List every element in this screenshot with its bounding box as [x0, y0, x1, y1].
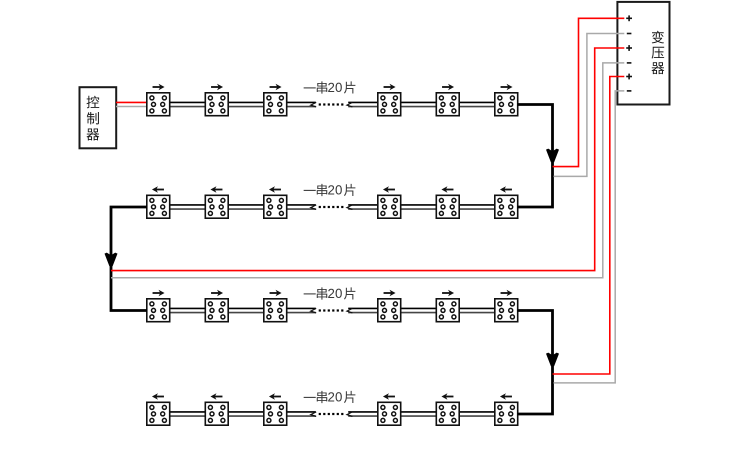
wire black row1 end to row2 end (right side bus) [518, 105, 553, 208]
transformer terminal - (output 2) [627, 62, 632, 64]
value label 一串20片 row4 [304, 391, 356, 403]
LED module row3 #6 [495, 299, 518, 322]
transformer terminal - (output 3) [627, 90, 632, 92]
wire break mark right row2 [347, 205, 352, 210]
wire break mark left row3 [311, 308, 316, 313]
wire pair row3 segment 5 [402, 308, 436, 312]
LED module row1 #6 [495, 93, 518, 116]
direction arrow above row2 module 6 [500, 186, 512, 192]
wire gray transformer output3 - to junction rows3-4 [554, 91, 625, 383]
LED module row2 #5 [436, 195, 459, 218]
wire pair row1 segment 5 [402, 102, 436, 106]
wire pair row2 segment 5 [402, 205, 436, 209]
wire red transformer output2 + to junction rows2-3 [111, 48, 624, 271]
wire break mark right row1 [347, 102, 352, 107]
LED module row4 #4 [378, 402, 401, 425]
direction arrow above row1 module 1 [153, 84, 165, 90]
value label 一串20片 row3 [304, 287, 356, 299]
wire break mark left row1 [311, 102, 316, 107]
wire pair row3 segment 2 [229, 308, 263, 312]
direction arrow above row3 module 3 [270, 290, 282, 296]
flow arrow on right bus rows1-2 [546, 149, 559, 163]
direction arrow above row1 module 2 [211, 84, 223, 90]
LED module row2 #6 [495, 195, 518, 218]
LED module row1 #3 [264, 93, 287, 116]
transformer terminal + (output 1) [626, 15, 632, 21]
direction arrow above row4 module 3 [269, 393, 281, 399]
wire pair row1 segment 3 [288, 102, 316, 106]
wire pair row2 segment 1 [171, 205, 205, 209]
wire gray controller to row1 module1 [116, 106, 147, 108]
transformer terminal + (output 2) [626, 45, 632, 51]
value label 一串20片 row1 [304, 81, 356, 93]
wire black row3 end to row4 end (right side bus) [518, 311, 553, 415]
wire pair row1 segment 2 [229, 102, 263, 106]
LED module row4 #3 [264, 402, 287, 425]
LED module row4 #5 [436, 402, 459, 425]
LED module row3 #4 [378, 299, 401, 322]
direction arrow above row3 module 2 [211, 290, 223, 296]
LED module row3 #3 [264, 299, 287, 322]
wire pair row3 segment 1 [171, 308, 205, 312]
wire pair row4 segment 1 [171, 412, 205, 416]
wire gray transformer output1 - to junction rows1-2 [554, 34, 625, 177]
LED module row1 #1 [147, 93, 170, 116]
wire pair row2 segment 4 [348, 205, 377, 209]
direction arrow above row3 module 6 [501, 290, 513, 296]
transformer terminal + (output 3) [626, 74, 632, 80]
direction arrow above row2 module 2 [210, 186, 222, 192]
direction arrow above row4 module 2 [210, 393, 222, 399]
direction arrow above row2 module 5 [441, 186, 453, 192]
wire red transformer output3 + to junction rows3-4 [553, 77, 625, 375]
wire black row2 start to row3 start (left side bus) [111, 207, 147, 311]
wire pair row4 segment 4 [348, 412, 377, 416]
LED module row3 #2 [205, 299, 228, 322]
dotted continuation row4 [319, 413, 344, 415]
direction arrow above row4 module 4 [383, 393, 395, 399]
wire pair row1 segment 6 [460, 102, 494, 106]
direction arrow above row4 module 6 [500, 393, 512, 399]
direction arrow above row1 module 5 [442, 84, 454, 90]
wire break mark left row2 [311, 205, 316, 210]
direction arrow above row1 module 4 [384, 84, 396, 90]
LED module row4 #1 [147, 402, 170, 425]
wire pair row2 segment 3 [288, 205, 316, 209]
wire break mark left row4 [311, 412, 316, 417]
wire pair row3 segment 3 [288, 308, 316, 312]
wire pair row1 segment 1 [171, 102, 205, 106]
LED module row4 #2 [205, 402, 228, 425]
LED module row2 #2 [205, 195, 228, 218]
wire pair row2 segment 6 [460, 205, 494, 209]
LED module row2 #4 [378, 195, 401, 218]
LED module row1 #4 [378, 93, 401, 116]
dotted continuation row1 [319, 103, 344, 105]
LED module row3 #1 [147, 299, 170, 322]
flow arrow on right bus rows3-4 [546, 353, 559, 367]
LED module row2 #1 [147, 195, 170, 218]
wire pair row4 segment 3 [288, 412, 316, 416]
wire break mark right row4 [347, 412, 352, 417]
direction arrow above row2 module 4 [383, 186, 395, 192]
wire pair row1 segment 4 [348, 102, 377, 106]
LED module row1 #5 [436, 93, 459, 116]
wire break mark right row3 [347, 308, 352, 313]
wire red controller to row1 module1 [116, 101, 147, 103]
wire pair row4 segment 5 [402, 412, 436, 416]
direction arrow above row4 module 1 [152, 393, 164, 399]
LED module row4 #6 [495, 402, 518, 425]
transformer terminal - (output 1) [627, 33, 632, 35]
direction arrow above row1 module 6 [501, 84, 513, 90]
direction arrow above row3 module 4 [384, 290, 396, 296]
controller box 控制器 [80, 87, 117, 148]
direction arrow above row3 module 1 [153, 290, 165, 296]
LED module row2 #3 [264, 195, 287, 218]
value label 一串20片 row2 [304, 184, 356, 196]
LED module row3 #5 [436, 299, 459, 322]
wire pair row3 segment 6 [460, 308, 494, 312]
wire pair row3 segment 4 [348, 308, 377, 312]
dotted continuation row3 [319, 309, 344, 311]
dotted continuation row2 [319, 206, 344, 208]
direction arrow above row4 module 5 [441, 393, 453, 399]
direction arrow above row2 module 1 [152, 186, 164, 192]
wire pair row4 segment 6 [460, 412, 494, 416]
wire pair row4 segment 2 [229, 412, 263, 416]
direction arrow above row1 module 3 [270, 84, 282, 90]
wire red transformer output1 + to junction rows1-2 [553, 18, 625, 166]
direction arrow above row3 module 5 [442, 290, 454, 296]
LED module row1 #2 [205, 93, 228, 116]
flow arrow on left bus rows2-3 [105, 253, 118, 267]
transformer box 变压器 [617, 2, 669, 105]
wire gray transformer output2 - to junction rows2-3 [111, 63, 624, 278]
wire pair row2 segment 2 [229, 205, 263, 209]
direction arrow above row2 module 3 [269, 186, 281, 192]
